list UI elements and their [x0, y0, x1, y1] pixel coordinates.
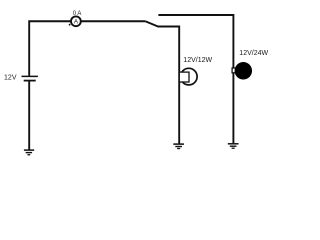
- svg-text:12V/12W: 12V/12W: [183, 57, 212, 64]
- svg-text:12V: 12V: [4, 75, 17, 82]
- svg-text:0 A: 0 A: [73, 11, 82, 17]
- svg-text:12V/24W: 12V/24W: [239, 50, 268, 57]
